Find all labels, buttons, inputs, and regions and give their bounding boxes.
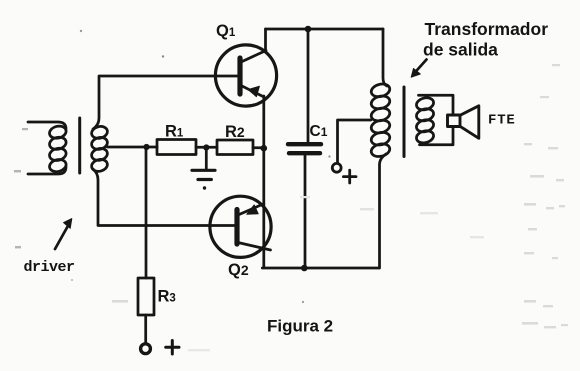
svg-text:C1: C1: [310, 123, 328, 140]
speaker FTE: [448, 106, 479, 139]
driver transformer primary coil: [48, 124, 67, 173]
wire top rail: [266, 28, 384, 31]
output transformer primary coil: [370, 82, 391, 158]
capacitor C1 top lead: [307, 29, 310, 142]
faint scan bleed-through marks: [112, 64, 568, 351]
svg-text:Figura 2: Figura 2: [267, 317, 333, 336]
wire secondary to speaker bottom: [420, 127, 454, 145]
resistor R1: [157, 140, 196, 155]
arrow to output transformer: [411, 60, 426, 78]
svg-text:de salida: de salida: [423, 40, 498, 60]
speck dots: [80, 30, 82, 32]
wire emitter rail Q1 to bottom rail: [262, 96, 265, 268]
node tap junction to R3: [143, 144, 149, 150]
wire Q1 collector up to top rail corner: [264, 29, 267, 52]
wire center tap to terminal: [338, 120, 371, 163]
svg-text:FTE: FTE: [488, 113, 516, 129]
driver transformer primary top lead: [28, 122, 66, 129]
terminal ring bottom +: [141, 344, 151, 354]
svg-text:Transformador: Transformador: [425, 19, 549, 39]
driver transformer core: [78, 118, 81, 173]
wire secondary center tap to R1: [108, 146, 158, 149]
wire secondary top lead up to Q1 base: [93, 76, 237, 129]
plus sign at output terminal: [343, 170, 356, 183]
svg-text:R2: R2: [225, 123, 245, 141]
output transformer core: [403, 87, 406, 157]
driver transformer primary bottom lead: [28, 167, 66, 174]
node top rail / C1: [305, 26, 312, 33]
arrow to driver transformer: [55, 219, 72, 249]
wire secondary to speaker top: [419, 95, 454, 115]
transistor Q2: [210, 196, 271, 257]
wire secondary bottom lead down to Q2 base: [93, 169, 236, 226]
node R1/R2 ground junction: [203, 144, 209, 150]
terminal ring B+: [332, 163, 341, 172]
wire ground drop: [205, 150, 208, 169]
node emitter rail junction: [261, 145, 268, 152]
capacitor C1 bottom lead: [304, 156, 307, 269]
output transformer primary top lead: [383, 29, 387, 86]
wire bottom rail: [262, 267, 379, 270]
wire R3 to terminal: [144, 315, 147, 344]
wire R2 to emitter rail: [253, 146, 264, 149]
wire R1 to R2: [196, 146, 217, 149]
output transformer secondary coil: [415, 96, 435, 144]
capacitor C1: [288, 144, 321, 153]
wire junction down to R3: [145, 147, 148, 278]
output transformer primary bottom lead: [380, 154, 387, 268]
plus sign at bottom terminal: [166, 341, 179, 355]
transistor Q1: [215, 45, 276, 106]
resistor R2: [217, 140, 253, 155]
node bottom rail / C1: [301, 265, 308, 272]
svg-text:Q2: Q2: [228, 261, 249, 279]
resistor R3: [138, 278, 154, 315]
driver transformer secondary coil: [90, 125, 108, 173]
ground: [192, 170, 215, 189]
svg-text:driver: driver: [24, 259, 75, 276]
